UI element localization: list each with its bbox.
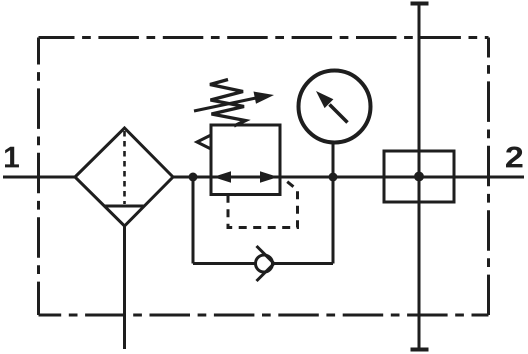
pilot line (dashed feedback)	[228, 180, 298, 228]
spring (regulator setting)	[210, 80, 246, 127]
enclosure border right (dash-dot)	[487, 38, 490, 316]
gauge G1 stem	[332, 143, 335, 178]
port 2 label	[506, 146, 522, 167]
regulator R1 right flow arrow	[260, 171, 278, 183]
wire: bypass down left	[192, 177, 195, 264]
filter F1 drain chord	[104, 205, 145, 208]
gauge G1 dial	[299, 71, 371, 143]
actuation line top cap	[411, 2, 429, 6]
wire: vertical actuation line	[418, 3, 421, 349]
gauge G1 needle shaft	[330, 105, 348, 123]
wire: regulator to outlet	[280, 176, 524, 179]
wire: bypass up right	[332, 177, 335, 264]
enclosure border left (dash-dot)	[37, 38, 40, 316]
enclosure border bottom (dash-dot)	[39, 314, 489, 317]
actuation line bottom cap	[411, 348, 429, 352]
valve block (outlet square)	[384, 151, 454, 202]
check valve V1 seat	[257, 246, 275, 281]
filter F1 body (diamond)	[75, 128, 173, 226]
port 1 label	[5, 147, 19, 168]
filter F1 element (dashed)	[123, 131, 126, 204]
wire: bypass bottom left	[193, 262, 256, 265]
enclosure border top (dash-dot)	[39, 36, 489, 39]
wire: filter to regulator	[173, 176, 211, 179]
adjustment arrow shaft	[194, 98, 257, 111]
regulator R1 body	[211, 125, 280, 195]
wire: bypass bottom right	[274, 262, 333, 265]
filter F1 drain line	[123, 226, 126, 349]
adjustment arrow head	[254, 92, 275, 104]
check valve V1 ball	[256, 255, 273, 272]
regulator R1 relief triangle	[197, 135, 211, 149]
gauge G1 needle head	[316, 91, 333, 108]
node B (junction gauge/bypass)	[329, 173, 338, 182]
node C (valve block center)	[414, 172, 424, 182]
node A (junction inlet/bypass)	[189, 173, 198, 182]
regulator R1 through line	[211, 176, 280, 179]
regulator R1 left flow arrow	[213, 171, 231, 183]
wire: inlet line port 1	[3, 176, 75, 179]
